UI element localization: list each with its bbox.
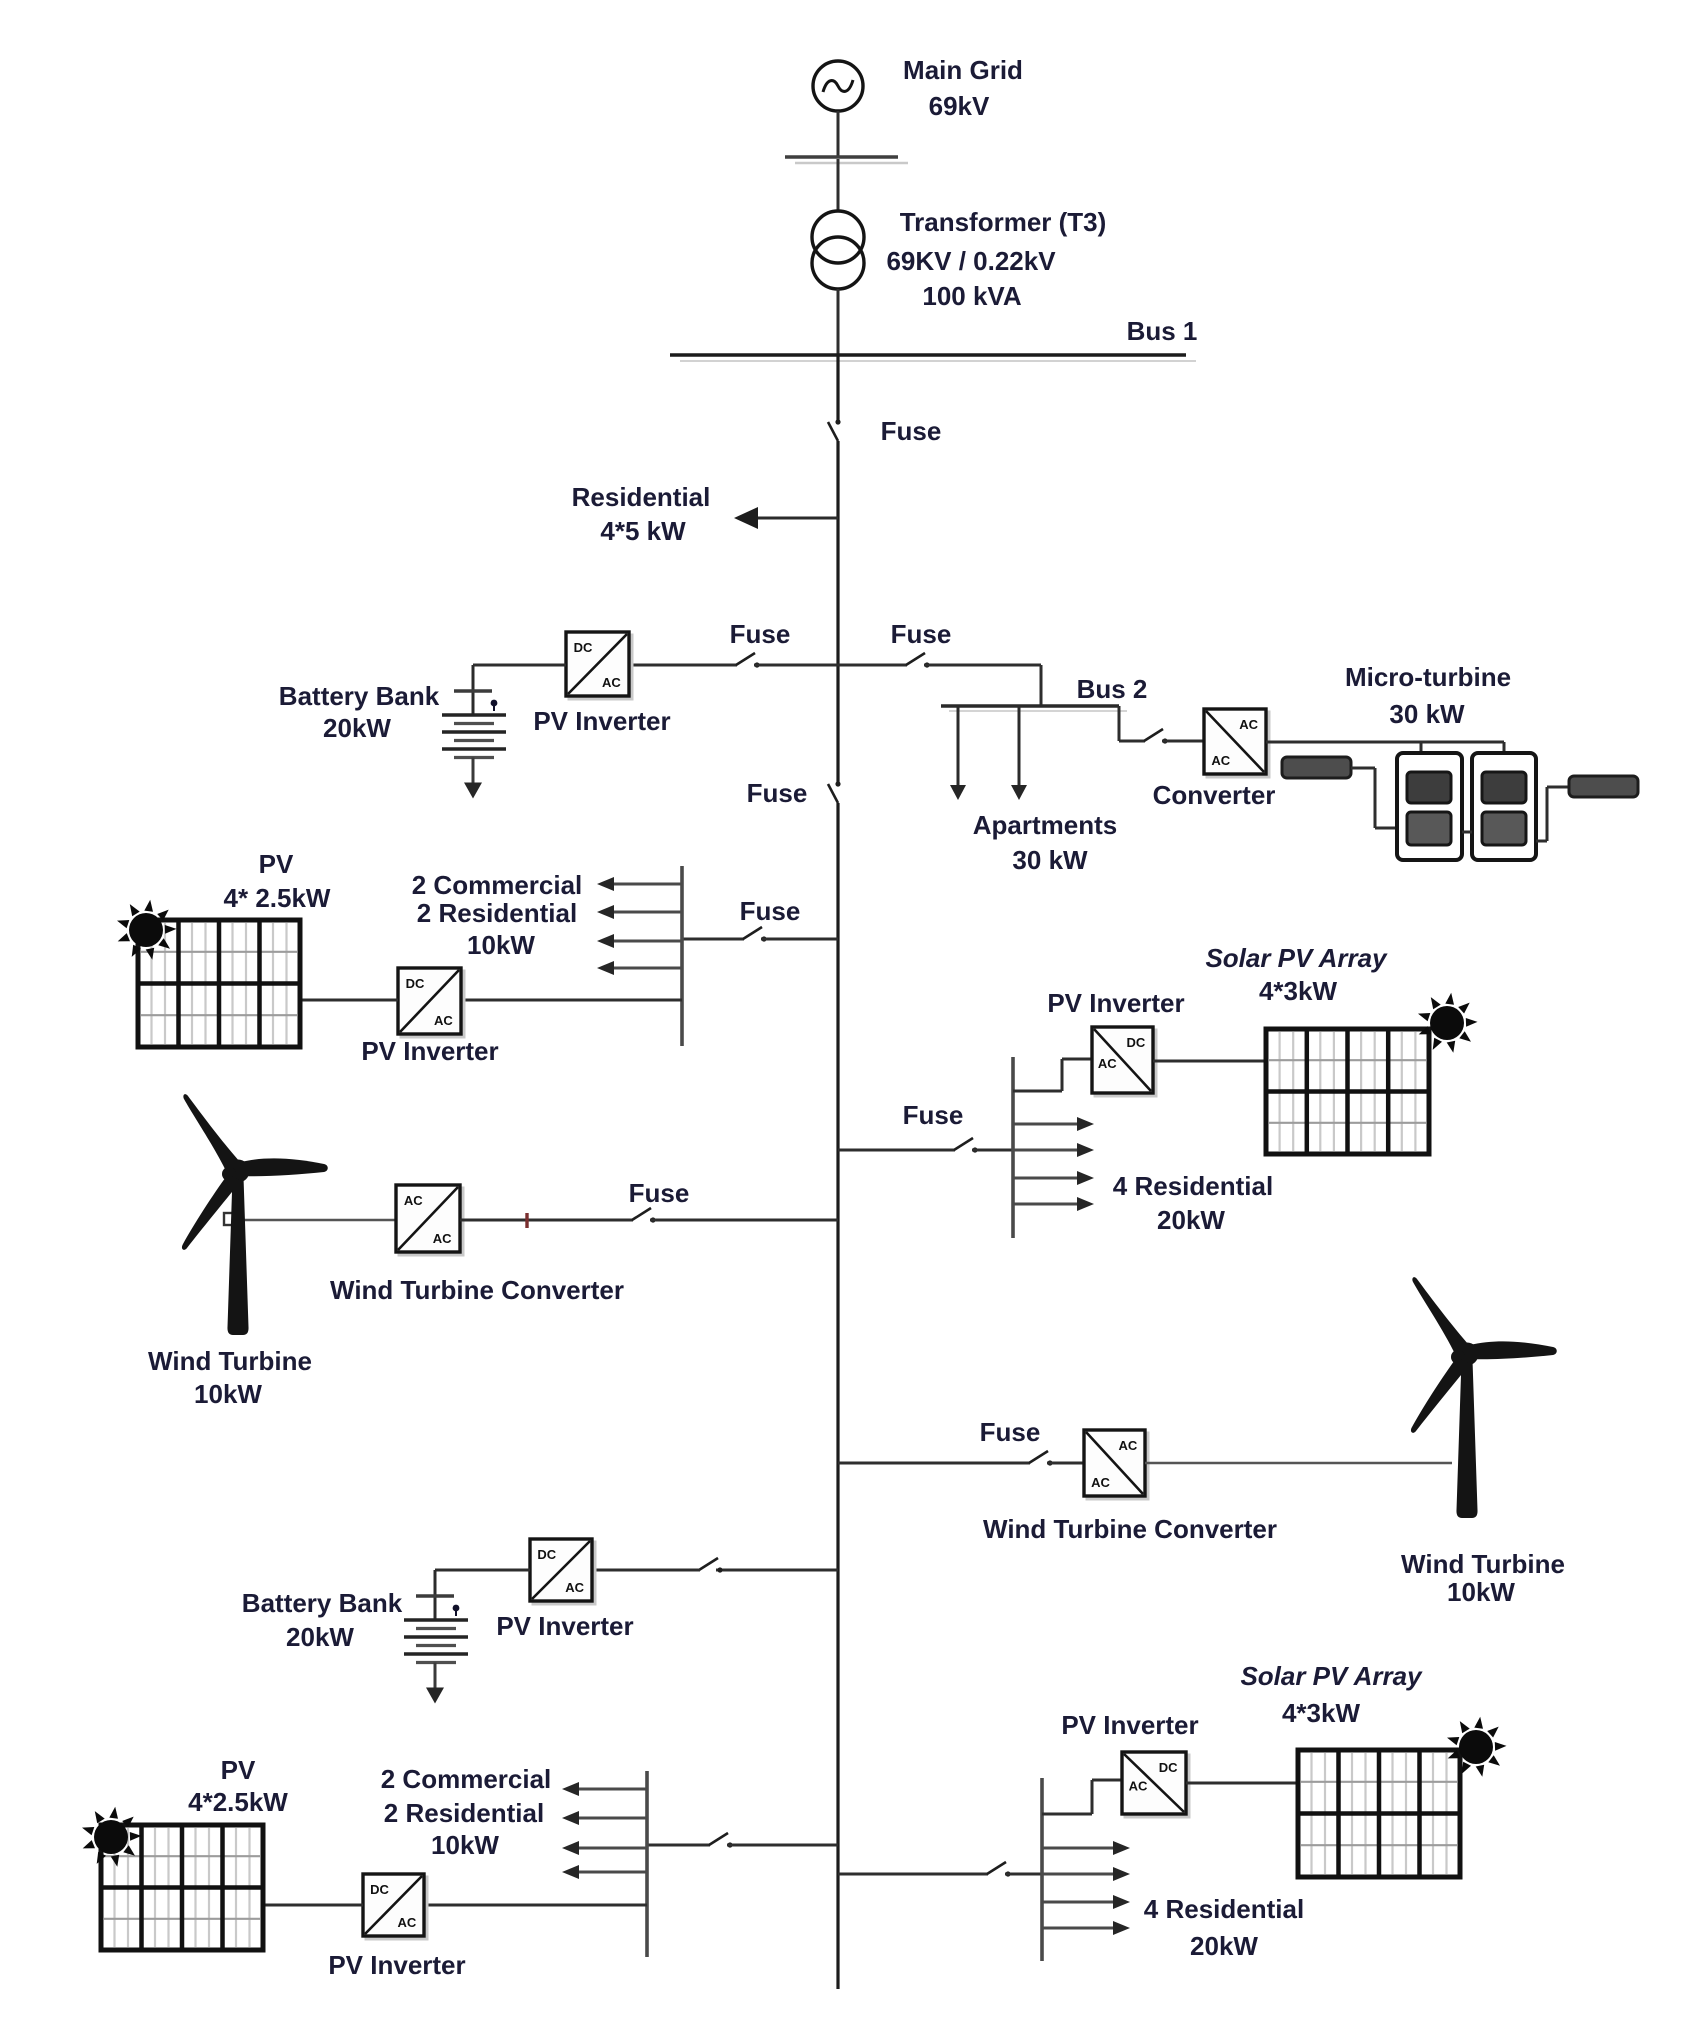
load arrow 11 [562,1841,647,1855]
svg-text:10kW: 10kW [431,1830,499,1860]
wire between block 1 and block 2 [1462,831,1472,834]
svg-text:Solar PV Array: Solar PV Array [1240,1661,1423,1691]
svg-text:4 Residential: 4 Residential [1144,1894,1304,1924]
load arrow Residential 4*5kW [734,507,838,529]
load arrow 3 [597,934,682,948]
wire PV panel 2 to inverter U8 [263,1904,363,1907]
wire up [1546,787,1549,841]
svg-text:DC: DC [537,1547,556,1562]
svg-text:4*5 kW: 4*5 kW [600,516,686,546]
wire F7 to main feeder [650,1219,838,1222]
distribution bar 3 [1040,1778,1044,1961]
svg-text:PV: PV [221,1755,256,1785]
wire Bus 2 down to converter [1118,706,1121,741]
svg-text:AC: AC [565,1580,584,1595]
svg-text:AC: AC [1119,1438,1138,1453]
wire down [1374,768,1377,828]
converter U2 (micro-turbine) [1204,709,1269,777]
converter U5 Wind Turbine Converter [396,1185,463,1255]
load arrow 6 [1013,1143,1094,1157]
PV panel array 1 (4*2.5kW) [138,920,300,1047]
distribution bar 2 [645,1771,649,1957]
svg-text:2 Residential: 2 Residential [417,898,577,928]
wire into block 1 [1375,827,1397,830]
svg-text:Transformer (T3): Transformer (T3) [900,207,1107,237]
svg-text:Battery Bank: Battery Bank [242,1588,403,1618]
wire stub to turbine block 2 [1503,742,1506,754]
svg-text:PV Inverter: PV Inverter [361,1036,498,1066]
bus Bus 1 [670,353,1186,356]
load arrow 15 [1042,1895,1130,1909]
wire drop to Bus 2 [1040,665,1043,706]
fuse F7 [632,1208,656,1223]
fuse F2 [736,653,760,668]
svg-text:20kW: 20kW [1190,1931,1258,1961]
inverter U1 PV Inverter (battery bank 1) [566,632,632,699]
inverter U4 PV Inverter [1092,1027,1156,1096]
wire stub to turbine block 1 [1420,742,1423,754]
wire F3 toward Bus 2 [924,664,1041,667]
svg-text:DC: DC [1127,1035,1146,1050]
inverter U9 PV Inverter [1122,1752,1189,1817]
load arrow 12 [562,1865,647,1879]
source G1 Main Grid (AC source circle) [813,61,863,111]
svg-text:AC: AC [398,1915,417,1930]
wire main to fuse F6 [838,1149,955,1152]
svg-text:PV: PV [259,849,294,879]
distribution bar right 1 [1011,1057,1015,1238]
bus Bus 2 [941,704,1119,707]
main feeder wire upper [836,355,839,424]
load arrow 14 [1042,1867,1130,1881]
svg-text:AC: AC [1098,1056,1117,1071]
sun icon 1 [117,900,177,960]
fuse F1 on main feeder [828,419,841,441]
wire inverter1 to fuse F2 [629,664,737,667]
isolator bar [785,155,898,159]
svg-text:Micro-turbine: Micro-turbine [1345,662,1511,692]
svg-text:2 Commercial: 2 Commercial [412,870,583,900]
svg-text:PV Inverter: PV Inverter [1061,1710,1198,1740]
svg-text:Fuse: Fuse [629,1178,690,1208]
distribution bar 1 [680,866,684,1046]
svg-text:Solar PV Array: Solar PV Array [1205,943,1388,973]
svg-text:AC: AC [1091,1475,1110,1490]
svg-text:DC: DC [406,976,425,991]
battery bank BT2 [404,1570,468,1704]
load arrow Apartments 2 [1011,706,1027,800]
wire cylinder 1 to block 1 [1351,767,1375,770]
fuse F6 [954,1138,978,1153]
svg-text:Fuse: Fuse [891,619,952,649]
svg-text:4*3kW: 4*3kW [1282,1698,1360,1728]
sun icon 2 [1418,993,1478,1053]
wire to fuse F9 [1119,740,1145,743]
svg-text:DC: DC [1159,1760,1178,1775]
wire to cylinder 2 [1547,786,1569,789]
svg-text:Main Grid: Main Grid [903,55,1023,85]
wire inverter U7 to fuse F10 [592,1569,700,1572]
svg-text:4* 2.5kW: 4* 2.5kW [224,883,331,913]
svg-text:AC: AC [404,1193,423,1208]
solar PV array 1 (4*3kW) [1266,1029,1429,1154]
fuse F5 [743,927,767,942]
load arrow 13 (4 Residential bottom) [1042,1841,1130,1855]
svg-text:DC: DC [370,1882,389,1897]
main feeder wire lower [836,803,839,1989]
svg-text:Bus 1: Bus 1 [1127,316,1198,346]
wire into inverter U4 [1062,1058,1092,1061]
svg-text:Wind Turbine: Wind Turbine [148,1346,312,1376]
main feeder wire middle [836,441,839,786]
load arrow 4 [597,961,682,975]
svg-text:2 Commercial: 2 Commercial [381,1764,552,1794]
wire transformer to Bus 1 [837,289,840,355]
svg-text:PV Inverter: PV Inverter [533,706,670,736]
wire battery 2 to inverter U7 [435,1569,530,1572]
svg-text:4 Residential: 4 Residential [1113,1171,1273,1201]
wire into inverter U9 [1092,1779,1122,1782]
wire bar to inverter U4 step [1013,1090,1062,1093]
wire fuse to main feeder [716,1569,838,1572]
svg-text:2 Residential: 2 Residential [384,1798,544,1828]
wire battery 1 to inverter U1 [473,664,566,667]
svg-text:AC: AC [602,675,621,690]
load arrow 7 [1013,1171,1094,1185]
wire bar3 to inverter U9 step [1042,1813,1092,1816]
svg-text:Apartments: Apartments [973,810,1117,840]
svg-text:AC: AC [1239,717,1258,732]
wire converter U2 to micro-turbine [1266,741,1504,744]
svg-text:AC: AC [434,1013,453,1028]
wind turbine 1 [182,1094,328,1335]
wire F8 to converter U6 [1047,1462,1084,1465]
svg-text:69KV / 0.22kV: 69KV / 0.22kV [886,246,1056,276]
fuse F9 [1144,729,1168,744]
connector square at turbine 1 tower [224,1213,236,1225]
converter U6 Wind Turbine Converter [1084,1430,1148,1499]
svg-text:Battery Bank: Battery Bank [279,681,440,711]
load arrow Apartments 1 [950,706,966,800]
svg-text:Fuse: Fuse [980,1417,1041,1447]
svg-text:Fuse: Fuse [740,896,801,926]
wire turbine 1 to converter U5 [238,1219,396,1222]
fuse F10 [699,1558,723,1573]
wire inverter U8 to bar2 [424,1904,647,1907]
svg-text:DC: DC [574,640,593,655]
svg-text:Fuse: Fuse [730,619,791,649]
solar PV array 2 (4*3kW) [1298,1750,1460,1877]
inverter U8 PV Inverter [363,1874,427,1939]
load arrow 8 [1013,1197,1094,1211]
svg-text:10kW: 10kW [1447,1577,1515,1607]
load arrow 9 (2 Commercial bottom) [562,1782,647,1796]
svg-text:Bus 2: Bus 2 [1077,674,1148,704]
svg-text:20kW: 20kW [1157,1205,1225,1235]
wire F6 to bar right 1 [972,1149,1013,1152]
micro-turbine fuel cylinder 2 [1569,776,1638,797]
wire F12 to bar3 [1005,1873,1042,1876]
wire F11 to main feeder [727,1844,838,1847]
svg-text:Wind Turbine: Wind Turbine [1401,1549,1565,1579]
svg-text:Fuse: Fuse [881,416,942,446]
svg-text:69kV: 69kV [929,91,990,121]
load arrow 10 [562,1811,647,1825]
fuse F11 [709,1833,733,1848]
svg-text:Converter: Converter [1153,780,1276,810]
svg-text:20kW: 20kW [323,713,391,743]
svg-text:10kW: 10kW [194,1379,262,1409]
fuse F8 [1029,1451,1053,1466]
load arrow 1 (2 Commercial) [597,877,682,891]
fuse F4 on main feeder [828,781,841,803]
PV panel array 2 (4*2.5kW) [101,1825,263,1950]
wire inverter U9 to solar array 2 [1186,1782,1298,1785]
wire converter U6 to turbine 2 [1145,1462,1452,1465]
wire F9 to converter U2 [1162,740,1204,743]
wire F2 to F3 across main [754,664,907,667]
svg-text:Residential: Residential [572,482,711,512]
fuse F3 [906,653,930,668]
breaker tick [525,1213,528,1228]
wire block 2 out [1536,840,1547,843]
wire source to isolator [837,111,840,157]
svg-text:PV Inverter: PV Inverter [496,1611,633,1641]
wire step up [1061,1059,1064,1091]
svg-text:AC: AC [433,1231,452,1246]
load arrow 16 [1042,1921,1130,1935]
sun icon 3 [82,1807,142,1867]
svg-text:4*3kW: 4*3kW [1259,976,1337,1006]
wire inverter U4 to solar array 1 [1153,1060,1266,1063]
wire bar2 to fuse F11 [647,1844,710,1847]
wire isolator to transformer [837,159,840,212]
svg-text:AC: AC [1211,753,1230,768]
micro-turbine block 1 [1397,753,1462,860]
micro-turbine fuel cylinder 1 [1282,757,1351,778]
svg-text:PV Inverter: PV Inverter [328,1950,465,1980]
wire step up [1091,1780,1094,1814]
wire F5 to main feeder [761,938,838,941]
svg-text:30 kW: 30 kW [1389,699,1465,729]
wire inverter U3 to bar1 [461,999,682,1002]
wire PV panel 1 to inverter U3 [301,999,398,1002]
inverter U3 PV Inverter [398,968,464,1037]
svg-text:Wind Turbine Converter: Wind Turbine Converter [983,1514,1277,1544]
wind turbine 2 [1411,1277,1557,1518]
svg-text:20kW: 20kW [286,1622,354,1652]
wire bar1 to fuse F5 [682,938,744,941]
transformer T3 (two circles) [812,211,864,289]
wire converter U5 to fuse F7 [460,1219,633,1222]
fuse F12 [987,1862,1011,1877]
wire main to fuse F8 [838,1462,1030,1465]
sun icon 4 [1447,1717,1507,1777]
load arrow 2 [597,905,682,919]
svg-text:AC: AC [1129,1778,1148,1793]
micro-turbine block 2 [1472,753,1536,860]
svg-text:Wind Turbine Converter: Wind Turbine Converter [330,1275,624,1305]
svg-text:30 kW: 30 kW [1012,845,1088,875]
svg-text:Fuse: Fuse [903,1100,964,1130]
svg-text:Fuse: Fuse [747,778,808,808]
battery bank BT1 [442,665,506,799]
load arrow 5 (4 Residential) [1013,1117,1094,1131]
wire main to fuse F12 [838,1873,988,1876]
svg-text:4*2.5kW: 4*2.5kW [188,1787,288,1817]
svg-text:100 kVA: 100 kVA [922,281,1021,311]
svg-text:PV Inverter: PV Inverter [1047,988,1184,1018]
svg-text:10kW: 10kW [467,930,535,960]
inverter U7 PV Inverter (battery bank 2) [530,1539,595,1604]
